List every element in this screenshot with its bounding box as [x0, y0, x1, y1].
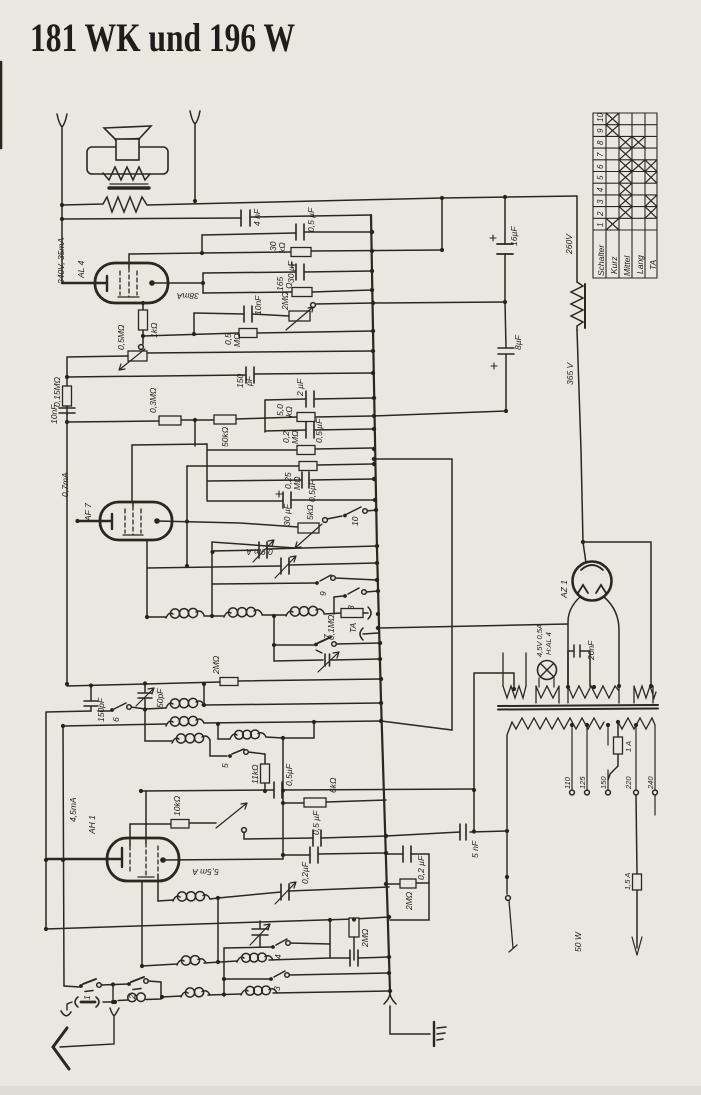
vertical drop x442	[441, 198, 443, 250]
wire trimmer line y550	[212, 546, 377, 551]
AL4 anode lead	[152, 282, 203, 284]
antenna jack pair with plug	[75, 997, 78, 1007]
mains switch line	[507, 722, 512, 894]
svg-text:0,5 µF: 0,5 µF	[314, 418, 324, 443]
wire HT right drop	[576, 196, 578, 282]
coil A3	[172, 738, 179, 743]
wire pot 2M to bus and 16uF	[315, 302, 505, 304]
svg-text:20nF: 20nF	[586, 640, 596, 661]
wire to coil A1	[145, 708, 166, 709]
junction dots on bus	[370, 230, 392, 993]
wire 165ohm branch	[203, 290, 372, 293]
capacitor 5nF line	[386, 831, 507, 836]
svg-text:MΩ: MΩ	[232, 333, 242, 347]
switch 2	[131, 977, 144, 982]
wire right drop y459	[373, 459, 452, 730]
wire switch8 drop	[333, 597, 335, 614]
coil B2	[237, 957, 244, 962]
capacitor 10nF series left column	[59, 406, 75, 684]
wire branch x224	[223, 948, 225, 996]
svg-text:2MΩ: 2MΩ	[280, 291, 290, 311]
wire coil A2 row y722	[63, 724, 166, 726]
AF7 grid top lead	[132, 444, 207, 506]
resistor 10k	[171, 820, 189, 829]
wire to trimmer cap row	[210, 887, 389, 899]
wire anode branch x187	[186, 466, 188, 566]
wire coil A3 row y740	[145, 740, 172, 742]
svg-text:181 WK und 196 W: 181 WK und 196 W	[30, 15, 295, 60]
svg-text:2: 2	[596, 211, 605, 217]
wire anode branch x283	[282, 738, 284, 859]
heater winding posts	[503, 653, 526, 686]
power switch	[506, 896, 511, 901]
coil C1	[181, 992, 188, 997]
wire heater bracket	[474, 673, 514, 831]
AH1 grids dashed	[130, 846, 158, 874]
secondary winding zig1	[503, 686, 526, 698]
svg-text:1: 1	[596, 223, 605, 227]
mains tap lines	[636, 725, 655, 815]
antenna symbol	[53, 1028, 69, 1069]
svg-text:9: 9	[318, 591, 328, 596]
tube AF7 envelope	[100, 502, 172, 540]
svg-text:4,5V 0,5A: 4,5V 0,5A	[535, 624, 544, 657]
mains line with fuse 1,5A	[636, 795, 637, 948]
paper edge mark	[0, 62, 2, 148]
table X marks	[606, 113, 657, 230]
svg-text:3: 3	[596, 199, 605, 204]
wire branch x194	[193, 313, 195, 334]
transformer core	[498, 705, 658, 706]
svg-text:125: 125	[578, 776, 587, 789]
speaker terminal post right with fork	[190, 111, 200, 201]
svg-text:5: 5	[596, 175, 605, 180]
wire sw2 to coupling coil	[146, 981, 161, 1000]
secondary winding zig2	[536, 686, 559, 703]
capacitor 30uF AF7	[283, 492, 291, 508]
svg-text:4 nF: 4 nF	[252, 208, 262, 226]
svg-text:260V: 260V	[564, 233, 574, 255]
svg-text:0,15MΩ: 0,15MΩ	[52, 376, 62, 407]
svg-text:50 W: 50 W	[573, 931, 583, 952]
resistor 0,15M	[63, 386, 72, 406]
resistor 0,2M	[297, 446, 315, 455]
switch 6	[98, 703, 145, 711]
wire coil A3 to sw5	[210, 740, 227, 756]
table header labels	[596, 244, 658, 276]
variable capacitor padder	[281, 884, 289, 900]
capacitor 2uF	[306, 391, 314, 407]
primary winding	[512, 718, 604, 729]
svg-text:7: 7	[596, 152, 605, 157]
svg-text:16µF: 16µF	[509, 226, 519, 246]
svg-text:150pF: 150pF	[96, 697, 106, 722]
wire pot left to x67	[67, 356, 128, 415]
wire 10nF line	[194, 313, 289, 316]
wire 0,2uF AH1 line	[283, 853, 386, 855]
speaker magnet	[116, 139, 139, 160]
resistor 1k	[142, 303, 144, 344]
speaker cone	[104, 126, 151, 140]
wire pot right to bus	[147, 351, 372, 353]
svg-text:10nF: 10nF	[253, 295, 263, 315]
potentiometer arrow AH1	[216, 803, 247, 828]
svg-text:0,2 µF: 0,2 µF	[416, 855, 426, 880]
svg-text:0,7mA: 0,7mA	[60, 472, 70, 497]
earth socket	[67, 1002, 72, 1010]
wire right of bus 0,2uF	[386, 853, 429, 855]
capacitor 0,5uF AH1 grid	[274, 782, 282, 798]
resistor 165	[292, 288, 312, 297]
AF7 cathode lead	[77, 514, 112, 529]
wire bottom coil row y995	[162, 996, 181, 997]
wire 2uF line	[265, 398, 372, 400]
svg-text:MΩ: MΩ	[290, 430, 300, 444]
capacitor 0,5uF mid	[306, 422, 314, 438]
svg-text:6: 6	[596, 164, 605, 169]
svg-text:110: 110	[563, 776, 572, 789]
rail 2 to bus with 4nF cap	[62, 215, 371, 219]
wire switch4 row	[224, 939, 330, 948]
svg-text:1kΩ: 1kΩ	[149, 322, 159, 338]
wire branch x195	[187, 420, 372, 466]
svg-text:5,5m A: 5,5m A	[192, 867, 219, 877]
speaker terminal post left with fork	[57, 114, 67, 283]
wire switch3 row	[224, 971, 389, 979]
lamp bottom leads	[539, 678, 554, 687]
resistor 2M right	[400, 879, 416, 888]
svg-text:11kΩ: 11kΩ	[250, 764, 260, 784]
svg-text:240: 240	[646, 776, 655, 790]
svg-text:0,5 µF: 0,5 µF	[306, 207, 316, 232]
AZ1 internals	[581, 565, 603, 570]
svg-text:kΩ: kΩ	[284, 406, 294, 417]
AL4 grids dashed	[120, 271, 137, 295]
svg-text:AH 1: AH 1	[87, 815, 97, 835]
capacitor 0,5uF AH1	[313, 830, 321, 846]
ground symbol	[433, 1022, 435, 1046]
coil IF 3	[286, 611, 293, 616]
switch 9	[315, 581, 319, 585]
wire coil A1 to bus	[202, 703, 381, 705]
svg-text:1,5 A: 1,5 A	[623, 873, 632, 890]
wire 6k line	[283, 800, 386, 803]
resistor 2M bottom	[353, 919, 355, 921]
wire sw1 to sw2	[101, 984, 128, 985]
vertical x505 with 16uF cap	[504, 197, 506, 302]
main ground bus	[371, 215, 390, 991]
resistor 6k	[304, 798, 326, 807]
wire 0,2M line y454	[207, 448, 372, 450]
AL4 cathode	[62, 276, 107, 291]
wire coil C2 to bus	[273, 991, 390, 993]
AH1 anode dot	[160, 857, 166, 863]
anode branch bracket	[202, 273, 204, 293]
svg-text:10: 10	[350, 516, 360, 526]
svg-text:30 µF: 30 µF	[282, 503, 292, 526]
coupling coil 2 loops	[118, 999, 128, 1002]
wire osc coil row y898	[158, 900, 173, 901]
svg-text:10nF: 10nF	[49, 404, 59, 424]
output transformer primary zigzag on supply rail	[62, 196, 577, 212]
wire 30uF AF7 line	[207, 500, 374, 501]
svg-text:50kΩ: 50kΩ	[220, 426, 230, 447]
AL4 anode dot	[149, 280, 155, 286]
resistor 30k	[291, 248, 311, 257]
svg-text:pF: pF	[244, 375, 254, 387]
switch 7	[274, 637, 331, 645]
svg-text:1 A: 1 A	[624, 741, 633, 752]
svg-text:4,5mA: 4,5mA	[68, 797, 78, 822]
svg-text:0,5 µF: 0,5 µF	[311, 810, 321, 835]
wire 50pF drop to coil A3 row	[144, 710, 146, 741]
svg-text:H:AL 4: H:AL 4	[544, 632, 553, 655]
antenna fork	[60, 1008, 119, 1047]
svg-text:150: 150	[599, 776, 608, 789]
svg-text:2 µF: 2 µF	[295, 378, 305, 397]
svg-text:kΩ: kΩ	[277, 242, 287, 253]
capacitor padder 2	[350, 950, 358, 966]
capacitor 150pF AVC	[84, 685, 98, 711]
wire coil row y962	[142, 964, 177, 966]
AL4 grid top lead wire	[129, 250, 442, 268]
wire trimmer line y565	[147, 540, 377, 617]
wire branch x202	[202, 233, 296, 253]
output transformer field coil box	[87, 147, 168, 174]
wire screen line y419	[67, 411, 506, 422]
svg-text:6: 6	[111, 717, 121, 722]
svg-text:8µF: 8µF	[513, 334, 523, 350]
AZ1 anode leads to winding	[568, 597, 580, 686]
secondary winding zig4	[634, 686, 656, 703]
svg-text:Kurz: Kurz	[609, 256, 619, 274]
pilot lamp	[538, 661, 557, 680]
switch 4	[271, 945, 275, 949]
coil A1	[166, 703, 173, 708]
svg-text:AL 4: AL 4	[76, 260, 86, 279]
capacitor 16uF electrolytic	[497, 244, 513, 254]
wire switch9 line	[212, 575, 377, 584]
wire grid AH1 long line y791	[141, 789, 474, 791]
transformer core bar	[110, 183, 148, 185]
wire 30uF branch	[203, 271, 372, 273]
wire pot bottom lead	[212, 542, 295, 616]
svg-text:8: 8	[596, 140, 605, 145]
wire TA to lamp	[378, 624, 568, 628]
variable capacitor trimmer 2	[281, 558, 289, 574]
bus bottom plug chevron	[384, 993, 430, 1034]
switch 3	[269, 977, 273, 981]
svg-text:TA: TA	[648, 259, 658, 270]
coil IF 2	[224, 612, 231, 617]
wire 0,5uF row y480	[207, 479, 374, 481]
tube AH1 envelope	[107, 838, 179, 881]
switch 1	[83, 979, 96, 984]
svg-text:AF 7: AF 7	[83, 503, 93, 522]
wire grid-leak line y334	[143, 331, 372, 336]
capacitor 150pF	[246, 367, 254, 383]
resistor 0,25M	[299, 462, 317, 471]
tube AH1 bottom leads	[142, 874, 158, 966]
svg-text:0,2µF: 0,2µF	[300, 861, 310, 884]
svg-text:240V, 35mA: 240V, 35mA	[56, 238, 66, 285]
svg-text:38mA: 38mA	[176, 291, 199, 301]
secondary winding HV	[568, 686, 619, 703]
svg-text:Lang: Lang	[635, 255, 645, 274]
svg-text:4: 4	[273, 954, 283, 959]
trimmer capacitor 7	[325, 654, 330, 666]
AH1 anode lead	[163, 859, 283, 860]
field coil zigzag	[103, 167, 150, 180]
svg-text:50pF: 50pF	[155, 688, 165, 708]
wire 2M AVC line y681	[67, 679, 381, 686]
svg-text:AZ 1: AZ 1	[559, 580, 569, 599]
resistor 0,5M	[239, 329, 257, 338]
variable capacitor trimmer 1	[259, 542, 267, 558]
svg-text:Schalter: Schalter	[596, 244, 606, 276]
svg-text:220: 220	[624, 776, 633, 790]
tube AZ1 envelope	[573, 562, 612, 601]
wire coil B2 to bus with cap	[269, 957, 389, 960]
capacitor 4nF	[241, 210, 250, 226]
svg-text:MΩ: MΩ	[292, 476, 302, 490]
svg-text:2MΩ: 2MΩ	[360, 928, 370, 948]
capacitor 0,5uF top	[296, 224, 304, 240]
svg-text:5: 5	[220, 763, 230, 768]
resistor 5,0k	[297, 413, 315, 422]
capacitor 0,2uF right	[403, 846, 411, 862]
resistor 2M AVC	[220, 678, 238, 686]
coil osc 1	[173, 896, 180, 901]
AF7 anode dot	[154, 518, 160, 524]
svg-text:7: 7	[322, 634, 332, 639]
svg-text:10: 10	[596, 113, 605, 122]
resistor 11k	[264, 754, 266, 791]
wire 10k line	[130, 823, 216, 846]
resistor field zigzag	[571, 282, 583, 330]
coil B1	[177, 960, 184, 965]
potentiometer 0,5M volume	[139, 345, 144, 350]
svg-text:0,5µF: 0,5µF	[284, 763, 294, 786]
wire branch x218	[217, 898, 219, 962]
capacitor 10nF	[244, 306, 252, 322]
svg-text:0,3MΩ: 0,3MΩ	[148, 387, 158, 413]
svg-text:0,5µF: 0,5µF	[307, 479, 317, 502]
svg-text:4: 4	[596, 187, 605, 192]
resistor 0,1M	[341, 609, 363, 618]
svg-text:9: 9	[596, 128, 605, 133]
wire AZ1 top to right drop	[583, 542, 651, 686]
tube AL4 envelope	[95, 263, 168, 303]
wire 150pF line	[67, 373, 372, 377]
resistor side bar	[584, 284, 586, 328]
wire 0,5uF AH1 line	[244, 832, 386, 839]
svg-text:6kΩ: 6kΩ	[328, 777, 338, 793]
table row numbers	[596, 113, 605, 227]
AF7 grids dashed	[125, 509, 141, 533]
coil C2	[241, 990, 248, 995]
svg-text:TA: TA	[348, 622, 358, 633]
wire AVC row y708	[46, 711, 91, 929]
wire 2M right loop	[386, 854, 429, 920]
switch 10	[327, 507, 377, 519]
svg-text:5 nF: 5 nF	[470, 840, 480, 858]
junction dots other	[44, 195, 653, 1004]
wire branch x274	[274, 616, 323, 661]
svg-text:5kΩ: 5kΩ	[305, 504, 315, 520]
svg-text:30 µF: 30 µF	[286, 260, 296, 283]
coil IF 1	[166, 613, 173, 618]
wire left margin down	[63, 726, 80, 987]
svg-text:2MΩ: 2MΩ	[211, 655, 221, 675]
svg-text:Mittel: Mittel	[622, 255, 632, 276]
capacitor 20nF	[568, 645, 590, 686]
variable capacitor 50pF vertical	[138, 684, 152, 710]
wire long line y922	[46, 917, 390, 929]
AZ1 top lead	[583, 542, 586, 563]
svg-text:2MΩ: 2MΩ	[404, 891, 414, 911]
wire 0,5uF line y430	[265, 429, 372, 431]
wire to AZ1	[577, 330, 583, 542]
switch 5	[232, 749, 265, 754]
capacitor 30uF electrolytic	[296, 264, 304, 280]
potentiometer 2M	[289, 311, 310, 321]
potentiometer 5k	[298, 523, 319, 533]
wire IF coil row y616	[147, 616, 166, 618]
svg-text:0,5MΩ: 0,5MΩ	[116, 324, 126, 350]
tap circles	[570, 790, 575, 795]
capacitor 8uF electrolytic	[498, 302, 514, 411]
resistor 50k	[214, 415, 236, 424]
TA jacks	[363, 607, 371, 619]
coil A2	[166, 721, 173, 726]
svg-text:365 V: 365 V	[565, 361, 575, 385]
wire branch x330	[329, 920, 331, 958]
svg-text:10kΩ: 10kΩ	[172, 795, 182, 816]
primary taps	[572, 725, 608, 790]
AF7 anode lead	[157, 521, 298, 527]
resistor 0,3M	[159, 416, 181, 425]
AH1 grid top lead	[145, 791, 147, 843]
capacitor 0,2uF AH1	[310, 847, 318, 863]
fuse 1A	[608, 722, 618, 780]
svg-text:1: 1	[82, 995, 92, 1000]
wire branch x265	[264, 400, 266, 432]
variable capacitor trimmer bottom	[252, 921, 268, 947]
AH1 cathode lead	[46, 848, 122, 867]
svg-text:Ω: Ω	[284, 282, 294, 289]
mains plug arrow	[632, 937, 642, 955]
switch 8	[334, 588, 378, 597]
coil A4	[218, 734, 237, 739]
switch table grid	[593, 113, 657, 278]
